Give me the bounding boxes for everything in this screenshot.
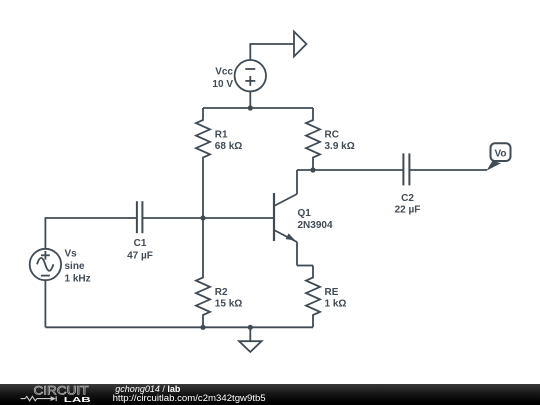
voltage source V2 Vcc (235, 60, 266, 91)
wire Vcc bottom to top rail (249, 92, 251, 109)
svg-text:Vcc: Vcc (215, 67, 233, 78)
label R1 68 kΩ (215, 130, 242, 153)
svg-text:LAB: LAB (64, 395, 92, 404)
svg-text:1 kHz: 1 kHz (65, 273, 91, 284)
svg-text:C2: C2 (401, 193, 414, 204)
wire C2 to Vo (410, 169, 487, 171)
resistor RC (306, 108, 320, 170)
svg-text:15 kΩ: 15 kΩ (215, 299, 242, 310)
svg-text:Q1: Q1 (298, 208, 312, 219)
transistor Q1 (274, 170, 297, 266)
svg-text:47 µF: 47 µF (127, 251, 153, 262)
resistor RE (306, 266, 320, 328)
label C2 22 µF (395, 193, 421, 215)
svg-text:Vs: Vs (65, 249, 78, 260)
label R2 15 kΩ (215, 287, 242, 310)
label RC 3.9 kΩ (325, 130, 355, 153)
resistor R1 (196, 108, 210, 170)
svg-text:R2: R2 (215, 287, 228, 298)
svg-text:2N3904: 2N3904 (298, 220, 333, 231)
wire base rail (45, 218, 136, 249)
capacitor C2 (403, 153, 409, 185)
node junction R2 bottom (200, 325, 205, 330)
net flag Vo (487, 143, 511, 170)
footer text (115, 385, 180, 394)
wire top rail (203, 107, 313, 109)
ground (239, 327, 262, 352)
label C1 47 µF (127, 238, 153, 262)
svg-text:10 V: 10 V (212, 79, 233, 90)
label RE 1 kΩ (325, 287, 347, 310)
footer bar (0, 384, 540, 405)
wire Vs bottom (44, 280, 46, 327)
wire C1 to base (143, 217, 273, 219)
svg-text:R1: R1 (215, 130, 228, 141)
svg-text:C1: C1 (134, 238, 147, 249)
wire Vcc top to flag (250, 44, 294, 60)
svg-text:sine: sine (65, 261, 85, 272)
svg-text:RC: RC (325, 130, 339, 141)
node junction collector rail (310, 167, 315, 172)
resistor R2 (196, 218, 210, 327)
net flag (arrow) (294, 32, 306, 57)
node junction base rail (200, 215, 205, 220)
svg-text:1 kΩ: 1 kΩ (325, 299, 347, 310)
voltage source V1 Vs (30, 249, 61, 280)
svg-text:Vo: Vo (494, 149, 506, 160)
capacitor C1 (137, 201, 143, 233)
wire R1 bottom to base rail (202, 170, 204, 218)
svg-text:22 µF: 22 µF (395, 204, 421, 215)
wire emitter to RE (297, 265, 313, 267)
CircuitLab logo (0, 384, 110, 405)
label Vcc 10 V (212, 67, 233, 91)
label Vs sine 1 kHz (65, 249, 91, 285)
wire collector rail (297, 169, 403, 171)
svg-text:68 kΩ: 68 kΩ (215, 141, 242, 152)
svg-text:RE: RE (325, 287, 339, 298)
svg-text:3.9 kΩ: 3.9 kΩ (325, 141, 355, 152)
node junction top rail (248, 105, 253, 110)
label Q1 2N3904 (298, 208, 333, 231)
wire bottom rail (45, 326, 313, 328)
node junction ground (248, 325, 253, 330)
